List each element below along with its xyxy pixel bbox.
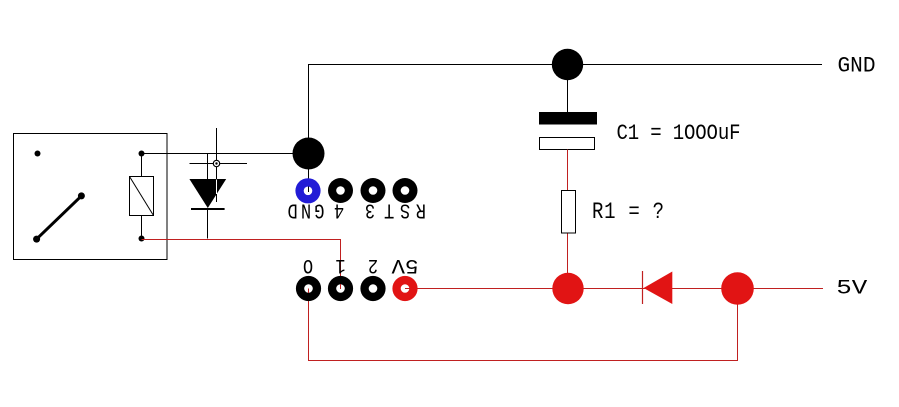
svg-text:5V: 5V <box>391 253 419 277</box>
svg-text:5V: 5V <box>836 277 867 300</box>
svg-text:2: 2 <box>368 253 378 277</box>
svg-text:3: 3 <box>365 198 375 222</box>
svg-text:O: O <box>303 253 313 277</box>
svg-text:4: 4 <box>334 198 344 222</box>
svg-text:RST: RST <box>384 198 426 222</box>
svg-text:R1 = ?: R1 = ? <box>592 200 664 226</box>
svg-text:GND: GND <box>838 54 876 79</box>
svg-text:1: 1 <box>335 253 345 277</box>
svg-text:C1 = 1OOOuF: C1 = 1OOOuF <box>617 122 741 147</box>
svg-text:GND: GND <box>288 198 325 222</box>
